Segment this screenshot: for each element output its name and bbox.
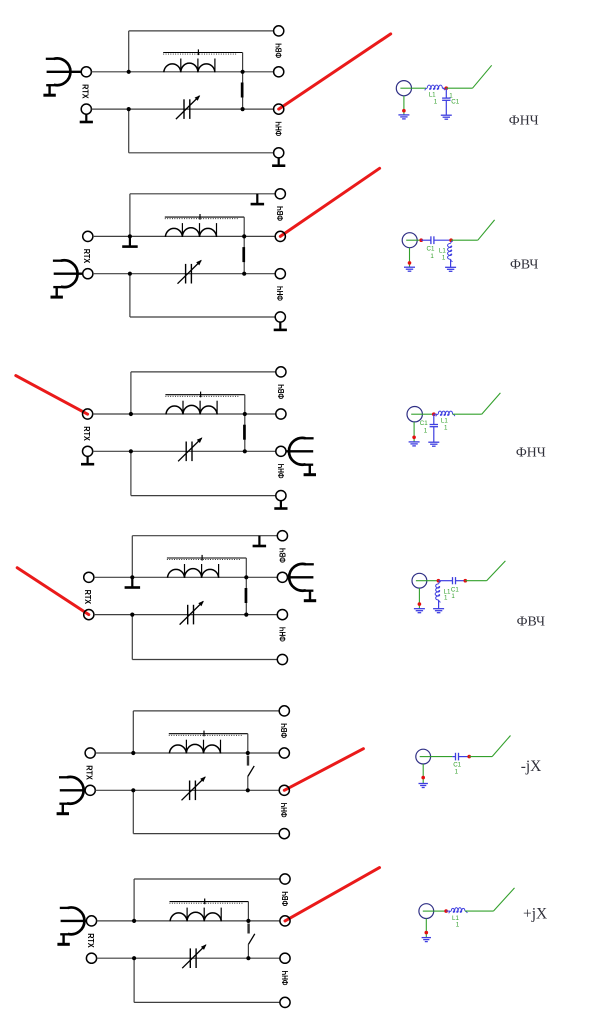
label RTX row6	[86, 933, 95, 948]
red selection line row5	[284, 749, 363, 791]
junction node J1-upper row3	[129, 412, 133, 416]
svg-text:-jX: -jX	[521, 758, 542, 775]
svg-text:ФВЧ: ФВЧ	[278, 548, 287, 563]
wire upper rail row5	[95, 752, 279, 754]
source ground row5	[419, 764, 428, 788]
wire upper rail row2	[93, 235, 275, 237]
label RTX row5	[85, 765, 94, 780]
svg-text:C1: C1	[427, 246, 435, 253]
tap bar drop wire row2	[243, 217, 245, 236]
terminal T4 row5	[279, 829, 289, 839]
wire bottom bypass vertical row2	[129, 274, 131, 317]
wire lower rail row6	[97, 957, 280, 959]
terminal T3 row2	[275, 269, 285, 279]
terminal left row1	[81, 104, 91, 114]
junction node J2-lower row5	[246, 788, 250, 792]
svg-text:C1: C1	[420, 420, 428, 427]
tapped inductor L row5	[169, 744, 220, 753]
junction node J2-upper row5	[246, 751, 250, 755]
source ground row4	[414, 588, 425, 613]
wire output diagonal row5	[492, 736, 510, 757]
inductor L1 series row6	[446, 908, 467, 914]
terminal T3 row1	[274, 104, 284, 114]
node in row2	[419, 238, 423, 242]
label FVCh row2	[510, 256, 538, 271]
node B row2	[449, 238, 453, 242]
node A row1	[445, 86, 449, 90]
svg-text:ФВЧ: ФВЧ	[281, 891, 290, 906]
wire bottom bypass horizontal row6	[134, 1001, 280, 1003]
terminal T1 row5	[279, 706, 289, 716]
label FVCh row4	[517, 613, 545, 628]
tap selector bar row4	[167, 555, 246, 561]
source V1 row4	[412, 573, 427, 588]
svg-text:ФНЧ: ФНЧ	[277, 463, 286, 478]
terminal T2 row6	[280, 916, 290, 926]
wire bottom bypass vertical row3	[130, 451, 132, 495]
svg-text:RTX: RTX	[81, 84, 90, 99]
label FNCh row1	[509, 112, 539, 127]
source V1 row6	[419, 904, 434, 919]
tapped inductor L row1	[164, 63, 215, 72]
node A row6	[444, 909, 448, 913]
label FNCh terminal row2	[276, 286, 285, 301]
svg-text:1: 1	[451, 593, 455, 600]
junction node J1-lower row1	[127, 107, 131, 111]
wire top bypass vertical row5	[132, 711, 134, 753]
inductor tap ticks row1	[181, 59, 215, 73]
label C1 row2	[427, 246, 435, 261]
switch S row5 (open)	[248, 756, 254, 791]
junction node J1-upper row5	[131, 751, 135, 755]
junction node J1-lower row4	[130, 613, 134, 617]
wire node to output row1	[446, 87, 472, 89]
wire source to L1 row1	[412, 87, 427, 89]
terminal left row2	[83, 231, 93, 241]
ground under terminal T4 row2	[274, 322, 287, 331]
svg-text:1: 1	[456, 922, 460, 929]
terminal T3 row4	[277, 610, 287, 620]
junction node J2-upper row2	[242, 234, 246, 238]
capacitor C1 series row2	[421, 236, 451, 244]
wire output diagonal row2	[478, 220, 495, 240]
terminal T1 row1	[274, 26, 284, 36]
svg-text:ФВЧ: ФВЧ	[517, 613, 545, 628]
coax antenna connector row3 (right side)	[289, 438, 316, 476]
wire L1 to output row3	[453, 413, 482, 415]
source V1 row5	[416, 749, 431, 764]
svg-text:RTX: RTX	[86, 933, 95, 948]
source V1 row1	[396, 81, 411, 96]
terminal left row5	[85, 748, 95, 758]
junction node J2-upper row1	[241, 70, 245, 74]
tapped inductor L row3	[166, 405, 217, 414]
label C1 row3	[420, 420, 428, 435]
variable capacitor C row3	[178, 437, 202, 461]
coax antenna connector row2	[51, 260, 78, 298]
tap selector bar row5	[169, 731, 248, 737]
label L1 row1	[429, 92, 438, 106]
source ground row1	[398, 96, 409, 119]
label FNCh terminal row3	[277, 463, 286, 478]
terminal RTX row2	[83, 269, 93, 279]
terminal T2 row2	[275, 231, 285, 241]
label RTX row3	[82, 426, 91, 441]
label C1 row4	[451, 587, 459, 600]
terminal T3 row3	[276, 446, 286, 456]
ground under terminal T4 row3	[274, 501, 287, 510]
terminal T3 row6	[280, 953, 290, 963]
label +jX row6	[523, 906, 547, 923]
wire L1 to output row6	[465, 910, 493, 912]
capacitor C1 series row4	[438, 577, 465, 584]
junction node J2-upper row6	[246, 919, 250, 923]
svg-text:RTX: RTX	[82, 426, 91, 441]
wire upper rail row1	[91, 71, 273, 73]
terminal left row3	[83, 446, 93, 456]
tap bar drop wire row6	[247, 902, 249, 921]
switch S row4 (closed)	[245, 577, 248, 614]
svg-text:ФВЧ: ФВЧ	[275, 43, 284, 58]
terminal T1 row3	[276, 367, 286, 377]
ground under left lower terminal row3	[81, 457, 94, 466]
label -jX row5	[521, 758, 542, 775]
wire antenna to RTX terminal row5	[60, 789, 85, 791]
wire top bypass horizontal row2	[130, 193, 275, 195]
wire node to output row5	[469, 756, 492, 758]
wire terminal to antenna row3	[286, 450, 313, 452]
wire bottom bypass horizontal row5	[133, 833, 279, 835]
wire L1 to node row1	[442, 87, 446, 89]
svg-text:ФВЧ: ФВЧ	[280, 723, 289, 738]
wire top bypass vertical row6	[133, 879, 135, 921]
terminal RTX row4	[84, 610, 94, 620]
svg-text:1: 1	[430, 253, 434, 260]
svg-text:ФНЧ: ФНЧ	[278, 627, 287, 642]
label FNCh terminal row4	[278, 627, 287, 642]
tap bar drop wire row1	[242, 53, 244, 72]
terminal T2 row5	[279, 748, 289, 758]
svg-text:1: 1	[455, 768, 459, 775]
svg-text:1: 1	[442, 254, 446, 261]
coax antenna connector row4 (right side)	[289, 564, 316, 602]
label FVCh terminal row2	[276, 206, 285, 221]
wire antenna to RTX terminal row6	[61, 920, 87, 922]
label C1 row1	[449, 92, 459, 105]
label FNCh terminal row5	[280, 802, 289, 817]
svg-text:ФНЧ: ФНЧ	[509, 112, 539, 127]
terminal RTX row5	[85, 785, 95, 795]
junction node J1-upper row1	[127, 70, 131, 74]
terminal left row6	[86, 953, 96, 963]
junction node J2-lower row3	[243, 449, 247, 453]
capacitor C1 series row5	[452, 753, 469, 761]
junction node J2-upper row3	[243, 412, 247, 416]
svg-text:1: 1	[424, 428, 428, 435]
junction node J1-upper row6	[132, 919, 136, 923]
wire top bypass horizontal row6	[134, 878, 280, 880]
tap selector bar row6	[170, 899, 249, 905]
variable capacitor C row4	[180, 601, 204, 625]
wire source to C1 row2	[417, 239, 421, 241]
terminal T4 row6	[280, 997, 290, 1007]
tap bar drop wire row3	[244, 395, 246, 414]
ground under left lower terminal row1	[80, 114, 93, 123]
terminal T4 row3	[276, 491, 286, 501]
red selection line row4	[17, 568, 89, 615]
terminal T1 row6	[280, 874, 290, 884]
switch S row6 (open)	[248, 924, 254, 959]
wire bottom bypass horizontal row4	[132, 659, 277, 661]
junction node J2-lower row2	[242, 272, 246, 276]
label FNCh row3	[516, 445, 546, 460]
inductor L1 shunt row2	[445, 241, 456, 271]
source ground row2	[404, 248, 415, 272]
switch S row2 (closed)	[242, 236, 245, 273]
wire lower rail row3	[93, 450, 276, 452]
wire bottom bypass horizontal row1	[129, 152, 274, 154]
wire top bypass horizontal row1	[129, 30, 274, 32]
node A row3	[432, 412, 436, 416]
wire upper rail row6	[97, 920, 280, 922]
wire bottom bypass horizontal row3	[131, 495, 276, 497]
junction node J2-lower row6	[246, 956, 250, 960]
wire bottom bypass vertical row4	[131, 615, 133, 660]
terminal T2 row4	[277, 572, 287, 582]
terminal T2 row1	[274, 67, 284, 77]
label RTX row1	[81, 84, 90, 99]
wire source to C1 row5	[431, 756, 453, 758]
source ground row6	[422, 919, 431, 942]
wire top bypass horizontal row3	[131, 371, 276, 373]
label FVCh terminal row4	[278, 548, 287, 563]
label RTX row4	[83, 590, 92, 605]
label FVCh terminal row1	[275, 43, 284, 58]
svg-text:RTX: RTX	[85, 765, 94, 780]
tap bar drop wire row5	[247, 734, 249, 753]
wire output diagonal row6	[493, 888, 514, 911]
wire upper rail row3	[93, 413, 276, 415]
terminal T3 row5	[279, 785, 289, 795]
label L1 row3	[441, 417, 448, 431]
capacitor C1 shunt row3	[428, 414, 439, 446]
tap selector bar row3	[165, 392, 244, 398]
inductor tap ticks row2	[182, 223, 216, 237]
wire node to output row2	[451, 239, 478, 241]
ground on top bypass wire row2	[251, 194, 265, 206]
inductor L1 shunt row4	[433, 582, 444, 613]
svg-text:ФНЧ: ФНЧ	[280, 802, 289, 817]
terminal T1 row2	[275, 189, 285, 199]
label RTX row2	[82, 249, 91, 264]
terminal RTX row3	[83, 409, 93, 419]
red selection line row3	[16, 376, 88, 415]
svg-text:C1: C1	[451, 98, 459, 105]
variable capacitor C row1	[176, 95, 200, 119]
wire lower rail row2	[93, 273, 275, 275]
wire lower rail row5	[95, 789, 279, 791]
red selection line row6	[285, 868, 380, 921]
ground under terminal T4 row1	[272, 158, 285, 167]
capacitor C1 shunt row1	[441, 88, 452, 119]
wire node to output row4	[465, 580, 486, 582]
terminal T4 row1	[274, 148, 284, 158]
coax antenna connector row5	[57, 777, 84, 815]
wire antenna to RTX terminal row1	[47, 71, 82, 73]
svg-text:RTX: RTX	[82, 249, 91, 264]
source V1 row2	[402, 233, 417, 248]
wire lower rail row1	[91, 108, 273, 110]
label FNCh terminal row1	[275, 121, 284, 136]
label L1 row6	[452, 915, 460, 929]
red selection line row1	[279, 34, 391, 109]
wire antenna to RTX terminal row2	[54, 273, 83, 275]
wire top bypass vertical row2	[129, 194, 131, 237]
wire source to node row3	[422, 413, 433, 415]
svg-text:ФВЧ: ФВЧ	[510, 256, 538, 271]
wire bottom bypass vertical row1	[128, 109, 130, 153]
source ground row3	[409, 422, 420, 446]
wire top bypass vertical row4	[131, 536, 133, 578]
label C1 row5	[453, 762, 461, 776]
tapped inductor L row4	[168, 569, 219, 578]
wire top bypass horizontal row5	[133, 710, 279, 712]
ground on top bypass wire row4	[253, 536, 267, 548]
label FVCh terminal row3	[277, 384, 286, 399]
tapped inductor L row2	[165, 228, 216, 237]
junction node J2-lower row1	[241, 107, 245, 111]
wire source to node row6	[434, 910, 446, 912]
wire lower rail row4	[94, 614, 277, 616]
label L1 row4	[444, 588, 451, 601]
tap selector bar row1	[163, 49, 242, 55]
wire bottom bypass horizontal row2	[130, 316, 275, 318]
node A row4	[437, 579, 441, 583]
junction node J1-lower row5	[131, 788, 135, 792]
wire top bypass vertical row1	[128, 31, 130, 72]
wire output diagonal row3	[482, 393, 501, 414]
variable capacitor C row5	[182, 776, 206, 800]
svg-text:ФВЧ: ФВЧ	[277, 384, 286, 399]
svg-text:1: 1	[444, 424, 448, 431]
svg-text:ФНЧ: ФНЧ	[275, 121, 284, 136]
junction node J1-lower row3	[129, 449, 133, 453]
svg-text:RTX: RTX	[83, 590, 92, 605]
terminal RTX row6	[86, 916, 96, 926]
junction node J2-upper row4	[244, 575, 248, 579]
ground at junction J1 row4	[125, 577, 141, 589]
label FVCh terminal row6	[281, 891, 290, 906]
wire bottom bypass vertical row6	[133, 958, 135, 1002]
source V1 row3	[407, 407, 422, 422]
junction node J2-lower row4	[244, 613, 248, 617]
wire output diagonal row4	[487, 561, 506, 581]
terminal T2 row3	[276, 409, 286, 419]
ground at junction J1 row2	[122, 236, 138, 248]
label FNCh terminal row6	[281, 970, 290, 985]
junction node J1-upper row2	[128, 234, 132, 238]
node A row5	[467, 755, 471, 759]
switch S row3 (closed)	[243, 414, 246, 451]
wire top bypass horizontal row4	[132, 535, 277, 537]
inductor L1 row1	[425, 85, 445, 90]
tap bar drop wire row4	[245, 558, 247, 577]
terminal RTX row1	[81, 67, 91, 77]
terminal T4 row4	[277, 654, 287, 664]
inductor L1 series row3	[434, 411, 455, 416]
wire output diagonal row1	[473, 65, 492, 88]
label L1 row2	[439, 248, 446, 262]
wire top bypass vertical row3	[130, 372, 132, 414]
svg-text:ФНЧ: ФНЧ	[516, 445, 546, 460]
svg-text:1: 1	[444, 595, 448, 602]
wire terminal to antenna row4	[287, 576, 313, 578]
terminal T1 row4	[277, 531, 287, 541]
junction node J1-upper row4	[130, 575, 134, 579]
wire upper rail row4	[94, 576, 277, 578]
svg-text:1: 1	[434, 98, 438, 105]
variable capacitor C row6	[182, 944, 206, 968]
svg-text:ФВЧ: ФВЧ	[276, 206, 285, 221]
wire source to node row4	[427, 580, 439, 582]
terminal left row4	[84, 572, 94, 582]
svg-text:ФНЧ: ФНЧ	[276, 286, 285, 301]
junction node J1-lower row6	[132, 956, 136, 960]
red selection line row2	[280, 168, 379, 236]
inductor tap ticks row4	[185, 564, 219, 578]
inductor tap ticks row6	[187, 908, 221, 922]
svg-text:ФНЧ: ФНЧ	[281, 970, 290, 985]
switch S row1 (closed)	[241, 72, 244, 109]
inductor tap ticks row5	[186, 740, 220, 754]
terminal T4 row2	[275, 312, 285, 322]
wire bottom bypass vertical row5	[132, 790, 134, 833]
label FVCh terminal row5	[280, 723, 289, 738]
coax antenna connector row6	[57, 908, 84, 946]
tapped inductor L row6	[170, 912, 221, 921]
coax antenna connector row1	[43, 58, 70, 96]
node B row4	[464, 579, 468, 583]
tap selector bar row2	[165, 214, 244, 220]
inductor tap ticks row3	[183, 401, 217, 415]
variable capacitor C row2	[178, 260, 202, 284]
junction node J1-lower row2	[128, 272, 132, 276]
svg-text:+jX: +jX	[523, 906, 547, 923]
